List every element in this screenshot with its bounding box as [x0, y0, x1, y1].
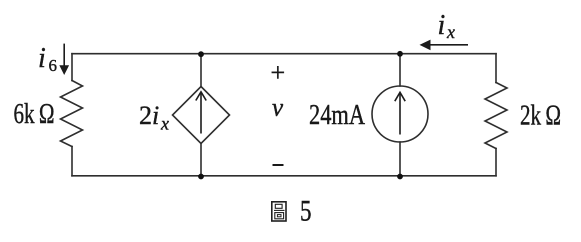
node dot top 24mA junction	[397, 51, 403, 57]
resistor 6k ohm zigzag	[61, 81, 83, 147]
wire dependent source bottom lead	[200, 144, 202, 176]
wire dependent source top lead	[200, 54, 202, 87]
svg-text:6: 6	[49, 56, 58, 75]
svg-text:i: i	[438, 10, 446, 41]
svg-text:24mA: 24mA	[309, 100, 366, 131]
svg-text:2i: 2i	[139, 101, 159, 130]
node dot top dependent source junction	[198, 51, 204, 57]
wire left branch top lead	[71, 54, 73, 81]
svg-text:x: x	[160, 113, 169, 133]
resistor 2k ohm zigzag	[485, 83, 507, 149]
svg-text:x: x	[446, 22, 455, 42]
wire right branch bottom lead	[495, 149, 497, 176]
arrow inside dependent source	[200, 92, 202, 134]
svg-text:5: 5	[300, 195, 312, 228]
svg-text:v: v	[272, 95, 284, 122]
arrow i6 current direction	[63, 44, 65, 66]
current source 24mA circle	[372, 86, 428, 142]
caption character tu (figure) drawn as strokes	[272, 202, 286, 221]
wire bottom rail	[72, 175, 496, 177]
wire top rail	[72, 53, 496, 55]
svg-text:6k Ω: 6k Ω	[14, 99, 55, 130]
wire right branch top lead	[495, 54, 497, 83]
dependent current source diamond	[173, 87, 230, 144]
wire 24mA source bottom lead	[399, 142, 401, 176]
svg-text:2k Ω: 2k Ω	[520, 101, 561, 132]
svg-text:+: +	[271, 58, 286, 87]
label minus sign of v	[273, 164, 284, 166]
wire left branch bottom lead	[71, 147, 73, 176]
node dot bottom 24mA junction	[397, 174, 403, 180]
wire 24mA source top lead	[399, 54, 401, 86]
node dot bottom dependent source junction	[198, 174, 204, 180]
svg-text:i: i	[38, 43, 46, 74]
arrow ix current direction	[429, 44, 468, 46]
arrow inside 24mA source	[399, 93, 401, 135]
